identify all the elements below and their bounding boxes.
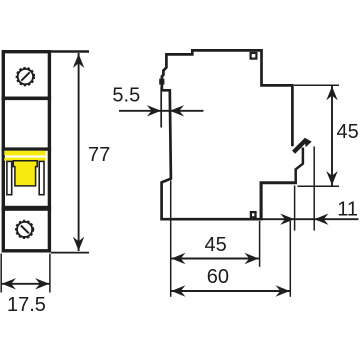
dimension 17.5 arrow left — [2, 278, 16, 289]
dimension 60 line — [171, 290, 290, 292]
dimension 60 extension right — [289, 221, 291, 297]
dimension 11 arrow left — [280, 214, 294, 225]
dimension 45 bottom arrow right — [244, 253, 258, 264]
dimension 11 arrow right — [314, 214, 328, 225]
toggle slot left — [7, 161, 12, 194]
svg-text:60: 60 — [207, 266, 229, 288]
dimension 45 right arrow bottom — [326, 171, 337, 185]
dimension 45 bottom extension left (shared with 60) — [170, 181, 172, 297]
side view small square bottom — [251, 212, 256, 217]
dimension 77 extension line bottom — [51, 252, 89, 254]
dimension 77 arrow up — [73, 54, 84, 68]
dimension 11 extension left — [294, 186, 296, 231]
side view DIN rail hook tip — [305, 138, 312, 148]
yellow band upper — [4, 151, 45, 156]
svg-text:45: 45 — [337, 121, 359, 143]
side view outline — [162, 50, 293, 219]
dimension 45 bottom arrow left — [171, 253, 185, 264]
dimension 45 right extension top — [294, 84, 339, 86]
dimension 77 extension line top — [51, 50, 89, 52]
svg-text:17.5: 17.5 — [7, 294, 46, 316]
dimension 17.5 arrow right — [35, 278, 49, 289]
side view bottom edge — [160, 218, 262, 221]
toggle lever (yellow) — [13, 161, 37, 186]
dimension 45 right arrow top — [326, 86, 337, 100]
svg-text:11: 11 — [337, 199, 358, 221]
yellow band lower — [4, 158, 45, 161]
dimension 45 right line — [331, 86, 333, 186]
dimension 60 arrow right — [276, 285, 290, 296]
dimension 77 line — [78, 53, 80, 251]
dimension 17.5 line — [1, 283, 50, 285]
front view divider line 1 — [2, 97, 52, 101]
terminal screw bottom — [16, 221, 34, 239]
svg-text:5.5: 5.5 — [112, 84, 140, 106]
dimension 5.5 arrow right — [170, 105, 184, 116]
side view small square top — [251, 53, 257, 59]
dimension 17.5 extension left — [0, 254, 2, 293]
side view DIN rail hook band — [294, 140, 307, 153]
dimension 11 extension right — [313, 147, 315, 231]
terminal screw top — [17, 68, 35, 86]
side view lower back edge under hook — [296, 148, 303, 185]
dimension 5.5 arrow left — [147, 105, 161, 116]
side view toggle lever protrusion — [159, 79, 164, 85]
side view step under hook — [260, 181, 297, 184]
dimension 45 right extension bottom — [298, 185, 340, 187]
dimension 11 line — [262, 218, 359, 220]
dimension 45 bottom extension right — [259, 221, 261, 267]
svg-text:45: 45 — [205, 234, 227, 256]
dimension 5.5 line — [119, 110, 204, 112]
svg-text:77: 77 — [88, 144, 110, 166]
front view outer case — [3, 52, 49, 251]
dimension 60 arrow left — [171, 285, 185, 296]
dimension 45 bottom line — [171, 258, 259, 260]
front view divider line 2 — [2, 206, 52, 211]
dimension 17.5 extension right — [49, 254, 51, 293]
side view lower back face — [260, 182, 263, 221]
dimension 5.5 extension line — [160, 87, 162, 128]
toggle slot right — [39, 161, 44, 194]
front view toggle recess top bar — [2, 147, 52, 150]
dimension 77 arrow down — [73, 237, 84, 251]
